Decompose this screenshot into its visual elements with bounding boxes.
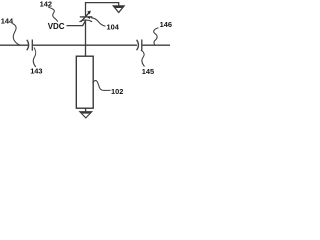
label 144 xyxy=(1,16,21,45)
wire xyxy=(86,3,119,17)
resistor 102 xyxy=(76,56,93,108)
label 104 xyxy=(87,16,120,32)
svg-text:VDC: VDC xyxy=(48,22,65,31)
wire xyxy=(85,20,87,57)
svg-text:144: 144 xyxy=(1,16,14,25)
variable capacitor 104 xyxy=(80,11,93,22)
wire xyxy=(85,108,87,112)
label 142 xyxy=(40,0,58,22)
svg-text:102: 102 xyxy=(111,87,123,96)
wire xyxy=(0,44,28,46)
label 143 xyxy=(30,48,42,76)
label 146 xyxy=(154,20,172,45)
capacitor 143 xyxy=(27,40,29,51)
label 145 xyxy=(141,50,154,76)
svg-text:146: 146 xyxy=(160,20,172,29)
ground xyxy=(113,6,124,13)
ground xyxy=(80,112,92,118)
wire xyxy=(33,44,137,46)
capacitor 145 xyxy=(137,40,139,51)
svg-text:143: 143 xyxy=(30,66,42,75)
label 102 xyxy=(93,81,124,97)
svg-text:145: 145 xyxy=(142,67,154,76)
wire xyxy=(143,44,171,46)
wire xyxy=(67,21,86,26)
svg-text:104: 104 xyxy=(107,23,120,32)
